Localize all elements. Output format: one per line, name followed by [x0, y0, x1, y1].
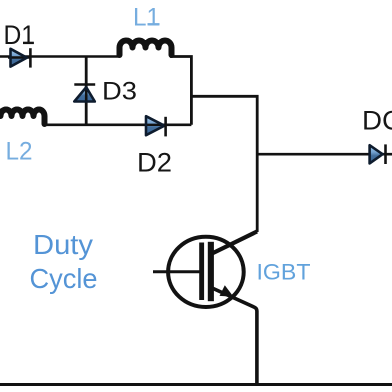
transistor IGBT body circle: [168, 237, 244, 307]
label L1: [148, 23, 160, 25]
IGBT gate bar: [199, 243, 204, 301]
wire L1 right lead and corner down: [170, 57, 191, 125]
diode D2: [144, 116, 166, 136]
inductor L1: [120, 41, 172, 55]
svg-text:DC: DC: [362, 106, 392, 136]
svg-text:D2: D2: [137, 147, 172, 177]
IGBT collector diagonal: [211, 232, 257, 255]
IGBT emitter diagonal: [211, 288, 257, 385]
svg-text:D1: D1: [4, 20, 36, 50]
wire D3 vertical: [85, 57, 88, 125]
wire bottom rail: [0, 383, 392, 386]
wire gate lead: [153, 270, 200, 273]
IGBT channel bar: [208, 242, 214, 301]
svg-text:L2: L2: [6, 137, 33, 165]
IGBT emitter arrowhead: [220, 285, 234, 297]
wire branch to output node: [191, 96, 257, 232]
diode D3: [74, 85, 95, 104]
svg-text:Cycle: Cycle: [30, 263, 98, 294]
svg-text:IGBT: IGBT: [257, 260, 311, 285]
inductor L2: [0, 110, 45, 124]
svg-text:L1: L1: [133, 3, 160, 31]
label D1: [23, 42, 34, 44]
svg-text:D3: D3: [102, 78, 137, 106]
diode D4 output: [370, 144, 386, 164]
wire output horizontal: [257, 153, 392, 156]
diode D1: [8, 48, 30, 67]
wire middle horizontal: [44, 124, 191, 127]
svg-text:Duty: Duty: [33, 229, 93, 260]
wire top-left horizontal input: [0, 55, 120, 58]
